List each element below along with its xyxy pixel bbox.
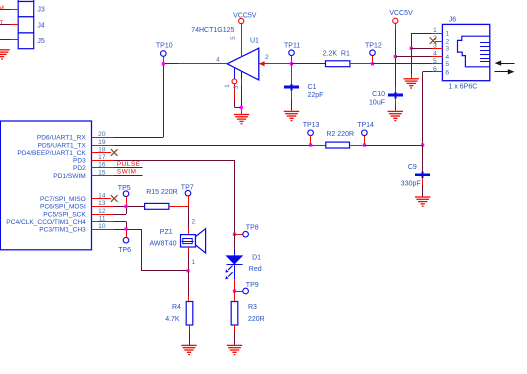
svg-text:T: T xyxy=(0,20,3,27)
svg-text:1: 1 xyxy=(224,84,231,88)
svg-text:R3: R3 xyxy=(248,304,257,311)
svg-text:J6: J6 xyxy=(449,16,457,23)
svg-text:R4: R4 xyxy=(172,304,181,311)
svg-text:TP8: TP8 xyxy=(246,225,259,232)
svg-text:PD6/UART1_RX: PD6/UART1_RX xyxy=(37,134,87,141)
svg-text:1: 1 xyxy=(192,259,196,266)
svg-text:TP12: TP12 xyxy=(365,42,382,49)
svg-text:J4: J4 xyxy=(37,22,45,29)
svg-text:D1: D1 xyxy=(252,255,261,262)
svg-text:4: 4 xyxy=(216,57,220,64)
svg-text:5: 5 xyxy=(230,36,237,40)
svg-text:PC5/SPI_SCK: PC5/SPI_SCK xyxy=(43,211,86,218)
svg-text:SWIM: SWIM xyxy=(117,169,137,176)
svg-text:C1: C1 xyxy=(308,84,317,91)
svg-text:R1: R1 xyxy=(341,50,350,57)
svg-text:TP7: TP7 xyxy=(181,184,194,191)
svg-text:TP13: TP13 xyxy=(303,122,320,129)
svg-text:PD2: PD2 xyxy=(73,165,86,172)
svg-text:2: 2 xyxy=(445,38,449,45)
svg-text:220R: 220R xyxy=(248,316,265,323)
svg-text:U1: U1 xyxy=(250,37,259,44)
svg-text:17: 17 xyxy=(98,154,106,161)
svg-text:R2 220R: R2 220R xyxy=(326,131,354,138)
svg-text:TP5: TP5 xyxy=(118,185,131,192)
svg-text:PC3/TIM1_CH3: PC3/TIM1_CH3 xyxy=(39,226,86,233)
svg-text:12: 12 xyxy=(98,208,106,215)
svg-text:6: 6 xyxy=(445,69,449,76)
svg-text:PC6/SPI_MOSI: PC6/SPI_MOSI xyxy=(40,204,86,211)
svg-text:10uF: 10uF xyxy=(369,99,385,106)
svg-text:PD4/BEEP/UART1_CK: PD4/BEEP/UART1_CK xyxy=(17,150,86,157)
svg-text:20: 20 xyxy=(98,131,106,138)
svg-text:74HCT1G125: 74HCT1G125 xyxy=(191,27,234,34)
svg-text:19: 19 xyxy=(98,139,106,146)
svg-text:PC4/CLK_CCO/TIM1_CH4: PC4/CLK_CCO/TIM1_CH4 xyxy=(6,219,86,226)
svg-text:PD1/SWIM: PD1/SWIM xyxy=(53,173,86,180)
svg-text:2: 2 xyxy=(192,218,196,225)
svg-text:TP11: TP11 xyxy=(284,42,300,49)
svg-text:3: 3 xyxy=(445,46,449,53)
svg-text:PC7/SPI_MISO: PC7/SPI_MISO xyxy=(40,196,86,203)
svg-text:2: 2 xyxy=(265,54,269,61)
svg-text:330pF: 330pF xyxy=(401,181,421,188)
svg-text:VCC5V: VCC5V xyxy=(233,12,257,19)
svg-text:M: M xyxy=(0,5,4,12)
svg-text:TP9: TP9 xyxy=(246,282,259,289)
svg-text:R15 220R: R15 220R xyxy=(146,189,178,196)
svg-text:4.7K: 4.7K xyxy=(165,316,180,323)
svg-text:1: 1 xyxy=(445,31,449,38)
svg-text:J3: J3 xyxy=(37,7,45,14)
svg-text:10: 10 xyxy=(98,223,106,230)
svg-text:PD3: PD3 xyxy=(73,157,86,164)
svg-text:PZ1: PZ1 xyxy=(160,229,173,236)
svg-text:1 x 6P6C: 1 x 6P6C xyxy=(449,83,478,90)
svg-text:2.2K: 2.2K xyxy=(323,50,338,57)
svg-text:AW8T40: AW8T40 xyxy=(150,241,177,248)
svg-text:3: 3 xyxy=(233,85,240,89)
svg-text:PD5/UART1_TX: PD5/UART1_TX xyxy=(38,142,87,149)
svg-text:TP10: TP10 xyxy=(156,42,173,49)
svg-text:C10: C10 xyxy=(372,91,385,98)
svg-text:TP6: TP6 xyxy=(118,247,131,254)
svg-text:C9: C9 xyxy=(408,164,417,171)
svg-text:J5: J5 xyxy=(37,38,45,45)
svg-text:5: 5 xyxy=(445,61,449,68)
svg-text:TP14: TP14 xyxy=(357,122,374,129)
svg-text:4: 4 xyxy=(445,54,449,61)
svg-text:PULSE: PULSE xyxy=(117,161,141,168)
svg-text:Red: Red xyxy=(249,266,262,273)
svg-text:22pF: 22pF xyxy=(308,92,324,99)
svg-text:VCC5V: VCC5V xyxy=(389,10,413,17)
